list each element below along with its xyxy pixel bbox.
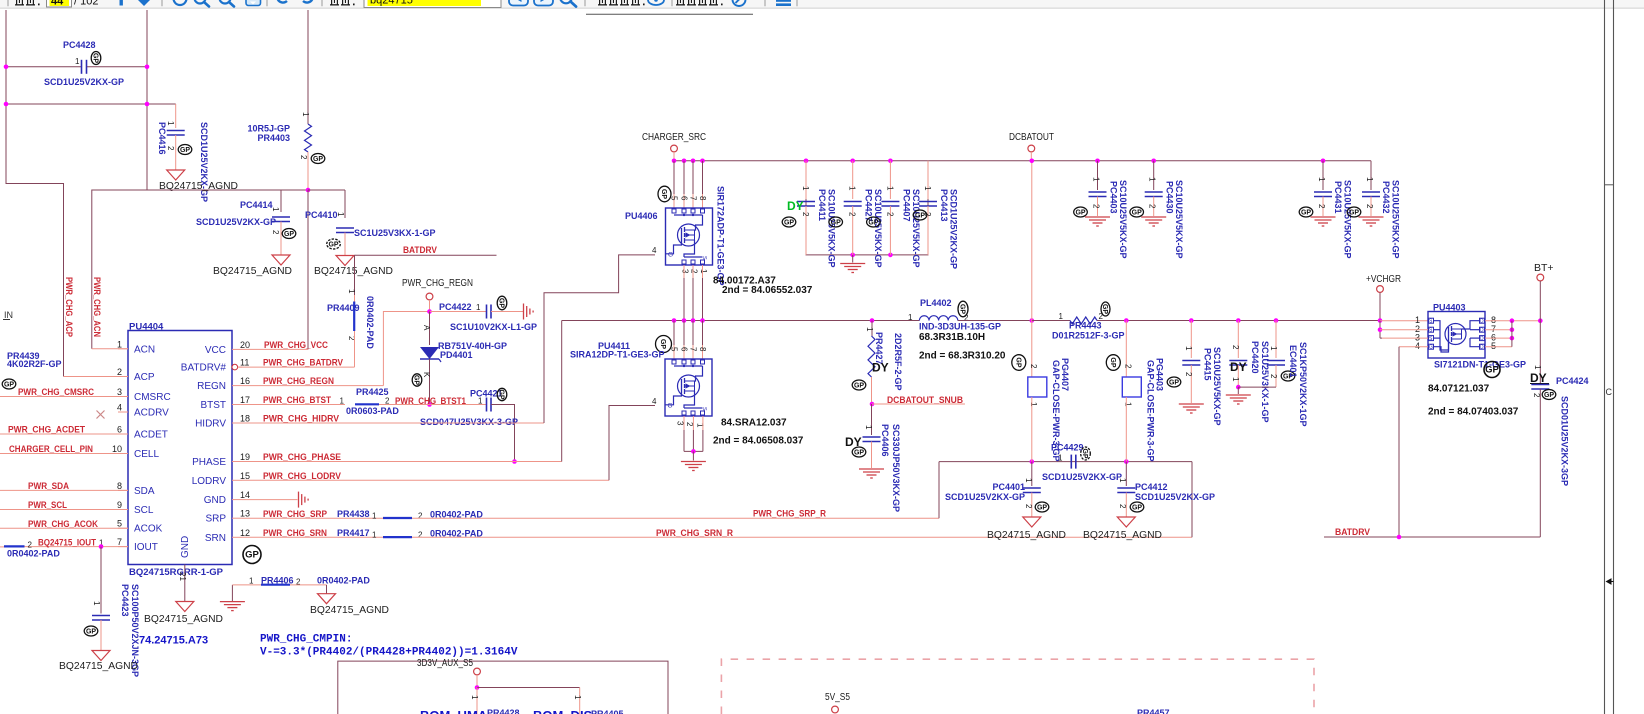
svg-text:SCD1U25V2KX-GP: SCD1U25V2KX-GP [945, 492, 1025, 502]
svg-text:2: 2 [1123, 364, 1132, 369]
svg-text:PHASE: PHASE [192, 457, 226, 468]
wire EC4401 bottom to PC4420 ground [1238, 386, 1276, 388]
wire GND pin 14 to ground [242, 499, 298, 501]
svg-text:ACDRV: ACDRV [134, 408, 169, 419]
svg-text:CELL: CELL [134, 449, 159, 460]
toolbar icon zoom in magnifier [220, 0, 231, 4]
power flag 3D3V_AUX_S5 [474, 668, 481, 675]
svg-text:GP: GP [413, 375, 420, 385]
svg-text:1: 1 [1148, 177, 1157, 182]
svg-text:SCD1U25V2KX-GP: SCD1U25V2KX-GP [1042, 472, 1122, 482]
svg-text:1: 1 [271, 207, 280, 212]
ground under cap bank [852, 255, 854, 263]
svg-text:GP: GP [1485, 365, 1499, 376]
toolbar background [0, 0, 1644, 8]
pin 21 thermal pad stub of PU4404 [184, 565, 186, 602]
svg-text:SCL: SCL [134, 505, 154, 516]
capacitor PC4401 [1031, 462, 1033, 486]
svg-text:PC4412: PC4412 [1135, 482, 1168, 492]
svg-text:11: 11 [240, 358, 249, 368]
svg-text:GP: GP [854, 383, 864, 390]
svg-text:PL4402: PL4402 [920, 298, 952, 308]
svg-text:GP: GP [328, 242, 338, 249]
svg-text:GP: GP [1132, 210, 1142, 217]
svg-text:1: 1 [470, 695, 479, 700]
svg-text:84.SRA12.037: 84.SRA12.037 [721, 418, 787, 429]
svg-text:SC10U25V5KX-GP: SC10U25V5KX-GP [1391, 180, 1401, 259]
svg-text:PC4423: PC4423 [120, 584, 130, 617]
svg-text:1: 1 [1059, 312, 1064, 321]
svg-text:IND-3D3UH-135-GP: IND-3D3UH-135-GP [919, 322, 1001, 332]
svg-text:1: 1 [885, 186, 894, 191]
wire CHARGER input column x308 [307, 10, 309, 124]
svg-text:1: 1 [1231, 377, 1240, 382]
svg-text:1: 1 [372, 531, 377, 540]
svg-text:HIDRV: HIDRV [195, 419, 226, 430]
svg-text:1: 1 [372, 511, 377, 520]
toolbar page input box with yellow highlight 44 [47, 0, 72, 7]
resistor PR4406 0R0402-PAD [231, 585, 233, 602]
svg-text:BOM_DIS: BOM_DIS [533, 708, 593, 714]
svg-text:19: 19 [240, 452, 250, 462]
svg-text:PC4420: PC4420 [1250, 341, 1260, 374]
svg-text:2: 2 [685, 422, 694, 427]
capacitor PC4410 [344, 190, 346, 218]
toolbar icon search magnifier [560, 0, 572, 3]
svg-text:PWR_SCL: PWR_SCL [28, 500, 67, 511]
svg-text:1: 1 [923, 186, 932, 191]
svg-text:GP: GP [1101, 304, 1108, 314]
svg-text:1: 1 [573, 695, 582, 700]
svg-text:SRP: SRP [205, 514, 226, 525]
svg-text:D: D [1480, 319, 1484, 325]
svg-text:SIRA12DP-T1-GE3-GP: SIRA12DP-T1-GE3-GP [570, 350, 665, 360]
svg-text:1: 1 [249, 577, 254, 586]
svg-text:21: 21 [178, 572, 187, 581]
svg-text:PC4415: PC4415 [1203, 348, 1213, 381]
svg-text:PWR_CHG_SRP: PWR_CHG_SRP [263, 509, 328, 520]
svg-text:GP: GP [831, 220, 841, 227]
svg-text:CHARGER_SRC: CHARGER_SRC [642, 131, 706, 143]
svg-text:PWR_CHG_BATDRV: PWR_CHG_BATDRV [263, 358, 344, 369]
svg-text:+VCHGR: +VCHGR [1366, 273, 1401, 285]
svg-text:1: 1 [478, 397, 483, 406]
svg-text:GP: GP [660, 189, 667, 199]
svg-text:PC4428: PC4428 [63, 40, 96, 50]
svg-text:1: 1 [1118, 478, 1127, 483]
svg-text:PR4417: PR4417 [337, 528, 370, 538]
svg-text:6: 6 [680, 196, 689, 201]
svg-text:2: 2 [271, 230, 280, 235]
toolbar icon rotate cw [301, 0, 313, 3]
wire BQ24715_IOUT pin 7 with resistor 0R0402 [25, 546, 129, 548]
wire PWR_CHG_LODRV pin 15 to PU4411 gate [242, 479, 609, 481]
svg-text:SCD047U25V3KX-3-GP: SCD047U25V3KX-3-GP [420, 417, 518, 427]
svg-text:ACOK: ACOK [134, 524, 163, 535]
svg-text:1: 1 [75, 57, 80, 66]
svg-text:15: 15 [240, 471, 250, 481]
wire PWR_CHG_BATDRV pin 11 [238, 366, 355, 368]
svg-text:GP: GP [1132, 505, 1142, 512]
svg-text:1: 1 [347, 289, 356, 294]
svg-text:GP: GP [86, 629, 96, 636]
GP symbol of PU4406 [658, 186, 671, 202]
svg-text:1: 1 [699, 269, 708, 274]
svg-text:7: 7 [689, 347, 698, 352]
svg-text:1: 1 [476, 303, 481, 312]
svg-text:4: 4 [652, 397, 657, 406]
wire PWR_CHG_ACN right rail from page top [92, 10, 147, 349]
wire DCBATOUT to PR4443 [1032, 320, 1070, 322]
ground BQ24715_AGND right of PR4406 [318, 594, 336, 604]
wire PWR_CHG_HIDRV pin 18 to PU4406 gate [242, 422, 544, 424]
wire PWR_CHG_BTST pin 17 with resistor PR4425 [242, 404, 345, 406]
svg-text:PWR_CHG_REGN: PWR_CHG_REGN [402, 277, 473, 289]
svg-text:2: 2 [1269, 374, 1278, 379]
svg-text:BQ24715_AGND: BQ24715_AGND [144, 613, 223, 625]
svg-text:BTST: BTST [200, 400, 226, 411]
svg-text:VCC: VCC [205, 345, 226, 356]
svg-text:DY: DY [872, 361, 889, 375]
svg-text:GP: GP [784, 220, 794, 227]
svg-text:PWR_CHG_CMPIN:: PWR_CHG_CMPIN: [260, 634, 352, 646]
svg-text:GP: GP [284, 231, 294, 238]
svg-text:SC1U25V3KX-1-GP: SC1U25V3KX-1-GP [1260, 341, 1270, 423]
wire PWR_CHG_CMSRC pin 3 [0, 396, 128, 398]
svg-text:GND: GND [180, 536, 191, 558]
svg-text:0R0402-PAD: 0R0402-PAD [317, 576, 370, 586]
wire PWR_SDA pin 8 [0, 489, 128, 491]
svg-text:0R0603-PAD: 0R0603-PAD [346, 406, 399, 416]
svg-text:PR4425: PR4425 [356, 387, 389, 397]
svg-text:SC1U10V2KX-L1-GP: SC1U10V2KX-L1-GP [450, 322, 537, 332]
svg-text:SCD1U25V2KX-GP: SCD1U25V2KX-GP [949, 189, 959, 269]
toolbar icon compass [733, 0, 746, 6]
svg-text:8: 8 [117, 481, 122, 491]
wire PC4416 link at y104 [6, 103, 147, 105]
svg-text:EC4401: EC4401 [1288, 345, 1298, 378]
svg-text:D01R2512F-3-GP: D01R2512F-3-GP [1052, 331, 1125, 341]
svg-text:5: 5 [117, 519, 122, 529]
svg-text:GP: GP [1544, 392, 1554, 399]
wires PU4403 source pins tie [1379, 321, 1381, 338]
svg-text:IN: IN [4, 310, 13, 320]
svg-text:1: 1 [1058, 454, 1063, 463]
svg-text:2: 2 [1184, 372, 1193, 377]
svg-text:SC10U25V5KX-GP: SC10U25V5KX-GP [827, 189, 837, 268]
capacitor PC4413 [927, 161, 929, 199]
wire PU4403 gate to BATDRV [1399, 346, 1428, 348]
svg-text:PC4424: PC4424 [1556, 376, 1589, 386]
svg-text:GP: GP [1081, 448, 1088, 458]
svg-text:2: 2 [690, 269, 699, 274]
svg-text:1: 1 [117, 339, 122, 349]
diode PD4401 RB751V-40H-GP [429, 312, 431, 346]
svg-text:PU4406: PU4406 [625, 211, 658, 221]
capacitor PC4421 [430, 404, 487, 406]
capacitor EC4401 [1275, 321, 1277, 359]
capacitor PC4430 [1153, 161, 1155, 190]
wire PWR_CHG_ACDET pin 6 [0, 433, 128, 435]
jumper PG4403 GAP-CLOSE-PWR [1125, 321, 1127, 378]
svg-text:BATDRV: BATDRV [403, 245, 438, 256]
toolbar search box with yellow highlighted text [364, 0, 501, 8]
svg-text:SC1U25V3KX-1-GP: SC1U25V3KX-1-GP [354, 228, 436, 238]
svg-text:14: 14 [240, 490, 250, 500]
capacitor PC4420 [1237, 321, 1239, 359]
toolbar icon rotate ccw [277, 0, 289, 3]
svg-text:4: 4 [652, 246, 657, 255]
toolbar label page-number (Chinese, cut off) [15, 4, 24, 5]
dashed box 5V_S5 region [721, 659, 1314, 714]
capacitor PC4414 [280, 190, 282, 212]
svg-text:PC4429: PC4429 [1051, 443, 1084, 453]
svg-text:S: S [701, 256, 707, 260]
svg-text:3: 3 [681, 269, 690, 274]
svg-text:GP: GP [180, 147, 190, 154]
svg-text:5V_S5: 5V_S5 [825, 692, 850, 703]
wire PWR_CHG_VCC pin 20 [242, 348, 308, 350]
toolbar icon eye [648, 0, 664, 5]
wires PU4411 drain pins from switch node [673, 321, 675, 346]
svg-text:SI7121DN-T1-GE3-GP: SI7121DN-T1-GE3-GP [1434, 360, 1526, 370]
svg-text:1: 1 [340, 397, 345, 406]
svg-text:DY: DY [787, 199, 804, 213]
svg-text:1: 1 [848, 186, 857, 191]
svg-text:GP: GP [854, 450, 864, 457]
svg-text:20: 20 [240, 340, 250, 350]
transistor Q3 PU4403 SI7121DN battery FET [1428, 312, 1485, 359]
svg-text:PC4407: PC4407 [901, 189, 911, 222]
svg-text:GP: GP [659, 339, 666, 349]
svg-text:2: 2 [299, 155, 308, 160]
svg-text:GP: GP [868, 220, 878, 227]
circled GP symbol below PU4404 [243, 546, 261, 564]
svg-text:2: 2 [1029, 364, 1038, 369]
svg-text:PWR_CHG_ACOK: PWR_CHG_ACOK [28, 519, 98, 530]
toolbar icon fit page [246, 0, 261, 6]
PU4403 mosfet symbol internals [1445, 324, 1466, 345]
capacitor PC4411 [805, 161, 807, 199]
svg-text:BQ24715_AGND: BQ24715_AGND [59, 660, 138, 672]
jumper PG4407 GAP-CLOSE-PWR [1031, 321, 1033, 378]
svg-text:SDA: SDA [134, 486, 155, 497]
svg-text:PC4413: PC4413 [939, 189, 949, 222]
svg-text:1: 1 [1092, 177, 1101, 182]
svg-text:GP: GP [245, 550, 259, 561]
svg-text:PWR_CHG_ACN: PWR_CHG_ACN [91, 277, 102, 337]
wire PWR_CHG_PHASE pin 19 [242, 461, 562, 463]
svg-text:44: 44 [51, 0, 64, 8]
svg-text:3: 3 [676, 421, 685, 426]
wire PR4443 to +VCHGR [1097, 320, 1380, 322]
svg-text:DCBATOUT_SNUB: DCBATOUT_SNUB [887, 395, 963, 406]
svg-text:1: 1 [336, 212, 345, 217]
svg-text:PR4428: PR4428 [487, 708, 520, 714]
toolbar icon previous-page up arrow [120, 0, 123, 6]
svg-text:ACDET: ACDET [134, 430, 168, 441]
capacitor PC4407 [889, 161, 891, 199]
svg-text:BOM_UMA: BOM_UMA [420, 708, 488, 714]
svg-text:PC4406: PC4406 [880, 424, 890, 457]
svg-text:PC4401: PC4401 [992, 482, 1025, 492]
svg-text:6: 6 [117, 425, 122, 435]
toolbar button find previous [509, 0, 528, 6]
GP symbol of PU4411 [656, 336, 672, 353]
svg-text:1: 1 [908, 313, 913, 322]
svg-text:REGN: REGN [197, 381, 226, 392]
toolbar label quick check (Chinese, cut off) [676, 4, 685, 5]
svg-text:1: 1 [1365, 177, 1374, 182]
svg-text:PWR_CHG_REGN: PWR_CHG_REGN [263, 376, 334, 387]
no-connect X on pin 4 ACDRV [97, 411, 105, 419]
wire PWR_CHG_ACP vertical rail from page top [6, 10, 64, 377]
svg-text:1: 1 [1024, 478, 1033, 483]
wire snubber drop from switch node [870, 318, 875, 323]
wires PU4403 drain pins to BT+ [1485, 320, 1540, 322]
svg-text:G: G [668, 252, 673, 259]
svg-text:V-=3.3*(PR4402/(PR4428+PR4402): V-=3.3*(PR4402/(PR4428+PR4402))=1.3164V [260, 647, 518, 659]
svg-text:PC4431: PC4431 [1333, 181, 1343, 214]
svg-text:GP: GP [1075, 210, 1085, 217]
svg-text:GP: GP [1109, 357, 1116, 367]
svg-text:SIR172ADP-T1-GE3-GP: SIR172ADP-T1-GE3-GP [716, 186, 726, 286]
svg-text:SC330JP50V3KX-GP: SC330JP50V3KX-GP [891, 424, 901, 512]
svg-text:G: G [668, 403, 673, 410]
svg-text:1: 1 [92, 601, 101, 606]
wire CHARGER_CELL_PIN pin 10 [0, 453, 128, 455]
wire 3D3V branch [477, 687, 580, 689]
svg-text:17: 17 [240, 395, 250, 405]
svg-text:GP: GP [4, 382, 14, 389]
svg-text:GP: GP [498, 298, 505, 308]
svg-text:2: 2 [117, 367, 122, 377]
svg-text:SCD01U25V2KX-3GP: SCD01U25V2KX-3GP [1560, 396, 1570, 486]
svg-text:PR4438: PR4438 [337, 509, 370, 519]
svg-text:BQ24715_AGND: BQ24715_AGND [987, 529, 1066, 541]
svg-text:7: 7 [689, 196, 698, 201]
capacitor PC4432 [1370, 161, 1372, 190]
svg-text:D: D [1480, 336, 1484, 342]
svg-text:PWR_CHG_HIDRV: PWR_CHG_HIDRV [263, 414, 340, 425]
capacitor PC4427 [852, 161, 854, 199]
svg-text:SCD1U25V2KX-GP: SCD1U25V2KX-GP [1135, 492, 1215, 502]
svg-text:12: 12 [240, 528, 250, 538]
svg-text:2: 2 [1231, 345, 1240, 350]
ground rotated after PC4422 [523, 304, 525, 320]
svg-text:18: 18 [240, 414, 250, 424]
svg-text:PC4410: PC4410 [305, 210, 338, 220]
wire DCBATOUT_SNUB stub [870, 402, 875, 407]
svg-text:SC10U25V5KX-GP: SC10U25V5KX-GP [1118, 180, 1128, 259]
ground IEC under PR4406 pin1 [220, 601, 245, 603]
svg-text:D: D [1480, 345, 1484, 351]
svg-text:3: 3 [117, 387, 122, 397]
svg-text:SC10U25V5KX-GP: SC10U25V5KX-GP [1174, 180, 1184, 259]
svg-text:PR4443: PR4443 [1069, 321, 1102, 331]
wire +VCHGR to PU4403 pin1 [1380, 320, 1428, 322]
svg-text:PWR_CHG_CMSRC: PWR_CHG_CMSRC [18, 387, 94, 398]
svg-text:4: 4 [117, 403, 122, 413]
capacitor PC4403 [1097, 161, 1099, 190]
toolbar label find (Chinese, cut off) [330, 4, 339, 5]
svg-text:4K02R2F-GP: 4K02R2F-GP [7, 359, 62, 369]
svg-text:BATDRV: BATDRV [1335, 527, 1371, 538]
capacitor PC4406 [871, 404, 873, 435]
svg-text:GP: GP [959, 304, 966, 314]
capacitor PC4428 [81, 60, 83, 74]
svg-text:2: 2 [166, 146, 175, 151]
svg-text:PWR_CHG_SRP_R: PWR_CHG_SRP_R [753, 509, 826, 520]
svg-text:GP: GP [1169, 380, 1179, 387]
svg-text:84.07121.037: 84.07121.037 [1428, 384, 1490, 395]
ground under PU4411 [681, 461, 706, 463]
svg-text:GP: GP [92, 53, 99, 63]
transistor Q2 PU4411 SIRA12DP low-side FET [665, 359, 712, 416]
svg-text:PC4414: PC4414 [240, 200, 273, 210]
stray page frame line top [586, 13, 753, 15]
wire inductor to DCBATOUT node [958, 320, 1032, 322]
capacitor PC4422 [430, 311, 487, 313]
svg-text:1: 1 [1269, 346, 1278, 351]
cap bank bracket wires [806, 161, 928, 255]
svg-text:1: 1 [301, 112, 310, 117]
svg-text:8: 8 [698, 347, 707, 352]
svg-text:GP: GP [915, 213, 925, 220]
svg-text:PWR_CHG_SRN_R: PWR_CHG_SRN_R [656, 528, 733, 539]
svg-text:PR4405: PR4405 [591, 709, 624, 714]
svg-text:ACP: ACP [134, 372, 155, 383]
svg-text:ACN: ACN [134, 344, 155, 355]
capacitor PC4412 [1125, 462, 1127, 486]
capacitor PC4415 [1190, 321, 1192, 359]
svg-text:2: 2 [1148, 204, 1157, 209]
svg-text:2: 2 [885, 212, 894, 217]
svg-text:6: 6 [680, 347, 689, 352]
svg-text:2: 2 [848, 212, 857, 217]
svg-text:SCD1U25V2KX-GP: SCD1U25V2KX-GP [196, 217, 276, 227]
wire switch node y320.5 [562, 320, 920, 322]
svg-text:10: 10 [112, 444, 122, 454]
svg-text:PU4403: PU4403 [1433, 303, 1466, 313]
svg-text:GP: GP [498, 389, 505, 399]
wire junction row y188.6 [92, 189, 308, 191]
svg-text:K: K [422, 372, 431, 378]
svg-text:PWR_CHG_VCC: PWR_CHG_VCC [264, 340, 328, 351]
svg-text:GP: GP [1301, 210, 1311, 217]
pin 11 BATDRV# inversion bubble [232, 364, 238, 370]
right panel collapse arrow [1606, 578, 1612, 585]
toolbar button find next [534, 0, 553, 6]
svg-text:2nd = 84.06508.037: 2nd = 84.06508.037 [713, 436, 804, 447]
svg-text:2D2R5F-2-GP: 2D2R5F-2-GP [893, 333, 903, 391]
wire PWR_SCL pin 9 [0, 509, 128, 511]
resistor PR4409 0R0402-PAD vertical [354, 255, 356, 295]
svg-text:1: 1 [1123, 402, 1132, 407]
svg-text:PC4416: PC4416 [157, 122, 167, 155]
svg-text:SRN: SRN [205, 533, 226, 544]
svg-text:8: 8 [698, 196, 707, 201]
svg-text:10R5J-GP: 10R5J-GP [247, 124, 290, 134]
op-amp U1 PU4404 BQ24715 charger IC box [128, 331, 232, 565]
svg-text:1: 1 [1317, 177, 1326, 182]
svg-text:PU4404: PU4404 [129, 322, 164, 333]
svg-text:S: S [701, 407, 707, 411]
svg-text:1: 1 [1184, 346, 1193, 351]
svg-text:G: G [1429, 345, 1433, 351]
svg-text:3D3V_AUX_S5: 3D3V_AUX_S5 [417, 658, 473, 669]
svg-text:68.3R31B.10H: 68.3R31B.10H [919, 332, 985, 343]
